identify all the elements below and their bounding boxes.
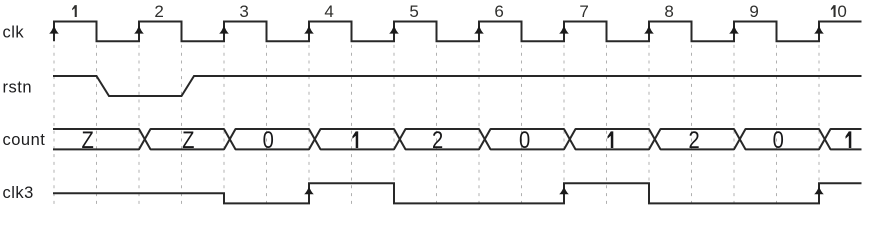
clk rising-edge arrowheads [49,25,824,33]
svg-text:clk3: clk3 [3,184,34,202]
svg-text:4: 4 [324,2,333,21]
digit 1 bus values (drawn, arial-style) [352,131,851,148]
dashed clock-edge gridlines [54,22,819,205]
svg-text:rstn: rstn [3,78,33,96]
svg-text:Z: Z [81,126,93,153]
rstn waveform [53,76,862,96]
svg-text:5: 5 [409,2,418,21]
svg-text:0: 0 [837,2,846,21]
clock cycle numbers 1-10 [154,2,846,21]
digit 1 of cycle 1 and of cycle 10 (drawn, arial-style) [72,5,836,17]
svg-text:0: 0 [773,126,784,153]
clk3 waveform [53,183,862,203]
svg-text:6: 6 [494,2,503,21]
svg-text:Z: Z [182,126,194,153]
clk waveform [54,22,862,42]
svg-text:clk: clk [3,23,25,41]
svg-text:2: 2 [154,2,163,21]
svg-text:8: 8 [664,2,673,21]
count bus value texts [81,126,783,153]
svg-text:2: 2 [432,126,443,153]
svg-text:3: 3 [239,2,248,21]
count bus outline (interleaved borders with X crossovers) [53,129,862,149]
signal name labels [3,23,46,202]
clk3 rising-edge arrowheads [304,186,824,194]
svg-text:count: count [3,131,46,149]
svg-text:9: 9 [749,2,758,21]
svg-text:0: 0 [519,126,530,153]
svg-text:2: 2 [688,126,699,153]
svg-text:0: 0 [263,126,274,153]
svg-text:7: 7 [579,2,588,21]
